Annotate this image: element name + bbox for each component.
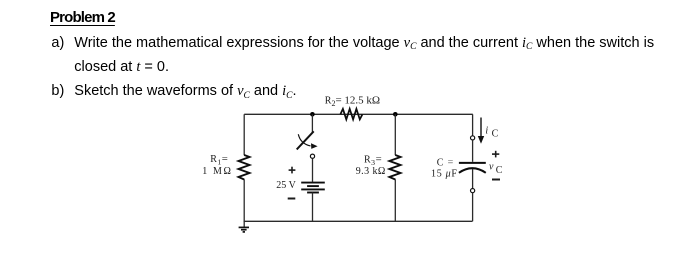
wire: right rail upper <box>472 114 474 136</box>
wire: cap plate to bottom terminal <box>472 169 474 189</box>
svg-text:1 MΩ: 1 MΩ <box>202 166 232 177</box>
label C value <box>431 157 458 179</box>
question a line 2 <box>74 58 169 77</box>
svg-text:v: v <box>489 162 494 173</box>
svg-text:C =: C = <box>437 157 455 168</box>
capacitor C plates <box>459 163 486 173</box>
svg-text:R1=: R1= <box>210 153 228 167</box>
capacitor C top terminal <box>471 136 475 140</box>
label vC <box>489 162 503 176</box>
capacitor C bottom terminal <box>471 189 475 193</box>
label battery minus <box>288 198 296 200</box>
node B: junction dot R3 branch / top rail <box>393 112 398 117</box>
svg-text:25 V: 25 V <box>276 180 296 191</box>
switch S1 blade <box>297 131 314 149</box>
wire: R3 branch upper <box>394 114 396 155</box>
label R3 value <box>356 153 386 177</box>
node A: junction dot switch branch / top rail <box>310 112 315 117</box>
svg-text:15 μF: 15 μF <box>431 169 458 180</box>
question b <box>51 82 296 103</box>
label battery 25 V <box>276 180 296 191</box>
wire: left rail lower <box>243 179 245 221</box>
label battery plus <box>289 167 296 174</box>
wire: left rail upper <box>243 114 245 155</box>
label R1 value <box>202 153 232 177</box>
resistor R1 <box>239 155 250 180</box>
current arrow iC <box>478 118 484 144</box>
wire: terminal to battery <box>312 158 314 181</box>
wire: R3 branch lower <box>394 179 396 221</box>
wire: switch branch drop <box>311 114 313 132</box>
title: Problem 2 <box>50 8 115 27</box>
svg-text:9.3 kΩ: 9.3 kΩ <box>356 166 386 177</box>
label R2 value <box>325 94 380 108</box>
label iC <box>485 125 498 139</box>
battery V1 25V <box>301 183 325 193</box>
wire: bottom rail <box>244 220 473 222</box>
svg-text:C: C <box>496 165 503 176</box>
wire: top rail <box>244 113 473 115</box>
switch S1 fixed terminal <box>310 154 314 158</box>
resistor R3 <box>389 155 400 180</box>
label vC plus <box>492 151 499 158</box>
wire: right rail lower <box>472 193 474 222</box>
question a line 1 <box>51 34 654 55</box>
svg-text:C: C <box>492 129 499 140</box>
resistor R2 <box>340 109 362 120</box>
svg-text:R2= 12.5 kΩ: R2= 12.5 kΩ <box>325 94 380 108</box>
wire: terminal to cap plate <box>472 140 474 162</box>
ground <box>239 227 249 232</box>
wire: ground stub <box>243 221 245 227</box>
switch S1 closing arc arrow <box>298 134 317 149</box>
label vC minus <box>492 179 500 181</box>
wire: battery to bottom rail <box>312 193 314 222</box>
svg-text:i: i <box>485 125 488 136</box>
